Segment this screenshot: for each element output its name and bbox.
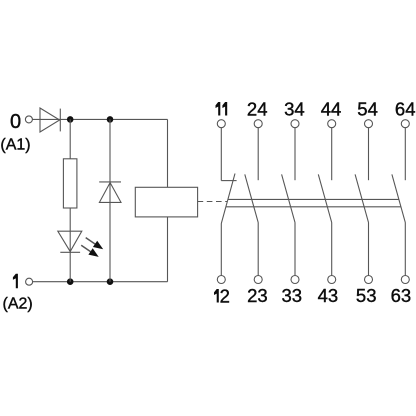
wire coil to bottom rail: [167, 217, 169, 282]
svg-text:24: 24: [247, 98, 268, 119]
junction node top rail / resistor branch: [67, 116, 74, 123]
contact terminal circle 53: [365, 276, 373, 284]
relay coil K1: [135, 187, 197, 217]
junction node bottom rail / diode D2 branch: [107, 278, 114, 285]
wire terminal 11 down: [220, 127, 222, 180]
contact terminal label 11: [216, 102, 228, 116]
svg-text:64: 64: [395, 98, 416, 119]
svg-text:23: 23: [247, 285, 268, 306]
wire blade to terminal 12: [220, 224, 222, 276]
svg-text:(A1): (A1): [0, 136, 30, 153]
svg-text:(A2): (A2): [3, 295, 33, 312]
contact terminal circle 64: [401, 120, 409, 128]
contact terminal circle 43: [328, 276, 336, 284]
LED emission arrow 2: [81, 245, 99, 257]
wire blade to terminal 43: [331, 223, 333, 276]
wire resistor/LED branch: [69, 119, 71, 281]
actuator bar top: [228, 198, 399, 200]
wire blade to terminal 33: [294, 223, 296, 276]
moving blade NO contact 33-34: [282, 174, 295, 222]
wire down to relay coil: [167, 119, 169, 187]
actuator bar bottom: [226, 206, 401, 208]
resistor R1: [63, 159, 77, 208]
contact terminal circle 34: [291, 120, 299, 128]
moving blade NO contact 53-54: [355, 174, 368, 222]
svg-text:63: 63: [391, 285, 412, 306]
moving blade NO contact 43-44: [318, 174, 331, 222]
wire bottom rail: [33, 281, 168, 283]
contact terminal circle 12: [217, 276, 225, 284]
wire terminal 64 down: [404, 127, 406, 180]
wire terminal 54 down: [368, 127, 370, 180]
svg-text:44: 44: [321, 98, 342, 119]
contact terminal circle 33: [291, 276, 299, 284]
wire terminal 34 down: [294, 127, 296, 180]
moving blade NC contact 11-12: [221, 174, 235, 224]
dashed mechanical link from coil to contacts: [198, 201, 228, 203]
wire terminal 0 to top rail corner: [32, 118, 167, 120]
wire blade to terminal 63: [404, 223, 406, 276]
LED emission arrow 1: [86, 238, 104, 250]
contact terminal circle 24: [254, 120, 262, 128]
svg-text:2: 2: [220, 285, 230, 306]
svg-text:43: 43: [318, 285, 339, 306]
wire blade to terminal 23: [257, 223, 259, 276]
wire diode D2 branch: [109, 119, 111, 281]
junction node bottom rail / LED branch: [67, 278, 74, 285]
contact terminal circle 63: [401, 276, 409, 284]
contact terminal circle 23: [254, 276, 262, 284]
junction node top rail / diode D2 branch: [107, 116, 114, 123]
svg-text:54: 54: [357, 98, 378, 119]
contact terminal circle 54: [365, 120, 373, 128]
svg-text:0: 0: [10, 111, 21, 133]
svg-text:33: 33: [282, 285, 303, 306]
diode D2 (flyback, cathode up): [99, 182, 121, 203]
wire terminal 24 down: [257, 127, 259, 180]
diode D1 (series input diode): [40, 108, 60, 132]
wire terminal 44 down: [331, 127, 333, 180]
contact terminal label 12: [214, 285, 230, 306]
fixed contact stub of NC contact 11-12: [221, 180, 236, 182]
terminal 0 (A1) circle: [25, 116, 32, 123]
wire blade to terminal 53: [368, 223, 370, 276]
terminal label 1: [13, 274, 18, 288]
contact terminal circle 44: [328, 120, 336, 128]
svg-text:34: 34: [284, 98, 305, 119]
terminal 1 (A2) circle: [26, 278, 33, 285]
contact terminal circle 11: [217, 120, 225, 128]
moving blade NO contact 23-24: [245, 174, 258, 222]
svg-text:53: 53: [356, 285, 377, 306]
moving blade NO contact 63-64: [392, 174, 405, 222]
LED indicator: [58, 231, 82, 252]
